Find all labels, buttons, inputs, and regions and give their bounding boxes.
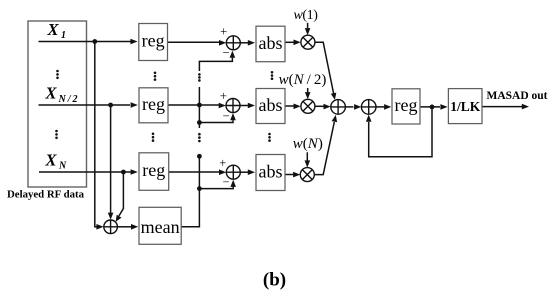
svg-text:reg: reg: [142, 94, 165, 114]
svg-text:−: −: [222, 109, 229, 123]
wire multiplier M1 to summer SG1 (diagonal): [315, 42, 334, 93]
ellipsis inside box upper: [56, 70, 59, 79]
svg-text:reg: reg: [142, 31, 165, 51]
wire mean distribution top segment and tap to row1 subtractor: [199, 58, 232, 71]
arrow feedback up into SG2: [366, 115, 372, 122]
svg-text:abs: abs: [259, 95, 283, 115]
junction mean line at row2 wire: [197, 103, 202, 108]
arrow into S3 from reg3: [219, 169, 226, 175]
summer SG1: [331, 100, 346, 115]
multiplier M2: [301, 99, 315, 113]
wire wN label to multiplier M3: [306, 152, 308, 160]
arrow into adder A1 diagonal: [116, 215, 122, 222]
ellipsis abs column lower: [268, 133, 271, 142]
svg-text:−: −: [222, 175, 229, 189]
ellipsis inside box lower: [55, 130, 58, 139]
wire abs3 to multiplier M3: [285, 174, 293, 176]
svg-text:Delayed RF data: Delayed RF data: [7, 189, 85, 201]
arrow into reg1: [130, 39, 137, 45]
subtractor S3: [226, 165, 240, 179]
wire reg2 to subtractor S2: [168, 104, 219, 106]
svg-text:mean: mean: [141, 217, 180, 237]
subtractor S2: [226, 99, 240, 113]
svg-text:abs: abs: [259, 33, 283, 53]
wire XN/2 row: [39, 104, 131, 106]
ellipsis mean line upper break: [198, 73, 201, 82]
junction reg4 output feedback: [430, 105, 435, 110]
wire mean tap to row3 subtractor: [199, 187, 233, 189]
svg-text:reg: reg: [395, 95, 418, 115]
arrow M1 diagonal into SG1: [331, 93, 337, 100]
ellipsis reg column upper: [154, 72, 157, 81]
wire subtractor S2 to abs2: [240, 105, 248, 107]
svg-text:w(N): w(N): [293, 136, 323, 152]
block abs2: [256, 89, 285, 124]
svg-text:(b): (b): [263, 270, 286, 291]
subtractor S1: [226, 36, 240, 50]
wire abs1 to multiplier M1: [285, 41, 294, 43]
wire XN/2 tap down to adder A1: [110, 105, 112, 213]
ellipsis reg column lower: [152, 133, 155, 142]
arrow wN down into M3: [305, 160, 311, 167]
wire summer SG1 to summer SG2: [345, 106, 353, 108]
wire reg4 to 1/LK: [420, 106, 440, 108]
wire subtractor S3 to abs3: [240, 171, 248, 173]
wire XN tap down to adder A1: [119, 172, 124, 216]
arrow SG1 to SG2: [354, 104, 361, 110]
multiplier M3: [300, 168, 314, 182]
arrow into M2 from abs2: [294, 104, 301, 110]
ellipsis mean line lower break: [198, 133, 201, 142]
arrow MASAD out: [522, 104, 529, 110]
junction mean tap row2: [197, 120, 202, 125]
block mean: [139, 207, 181, 244]
svg-text:−: −: [222, 45, 229, 59]
arrow into S2 from reg2: [219, 103, 226, 109]
svg-text:abs: abs: [259, 162, 283, 182]
block reg3: [139, 153, 169, 191]
svg-text:w(N / 2): w(N / 2): [279, 72, 327, 88]
arrow into reg2: [131, 102, 138, 108]
wire abs2 to multiplier M2: [285, 105, 294, 107]
arrow row1 minus into S1: [230, 51, 236, 58]
arrow row3 minus into S3: [230, 180, 236, 187]
junction XN tap: [121, 170, 126, 175]
wire X1 row: [39, 41, 132, 43]
wire multiplier M2 to summer SG1: [315, 105, 324, 107]
block reg2: [139, 88, 168, 123]
arrow wN2 down into M2: [305, 92, 311, 99]
wire subtractor S1 to abs1: [240, 42, 248, 44]
arrow w1 down into M1: [305, 28, 311, 35]
arrow M3 diagonal into SG1: [332, 115, 338, 122]
input data box: [28, 21, 87, 187]
arrow into M3 from abs3: [293, 172, 300, 178]
block 1/LK: [448, 89, 482, 124]
wire X1 tap down to adder A1: [95, 42, 98, 227]
wire mean tap to row2 subtractor: [199, 120, 233, 122]
wire multiplier M3 to summer SG1 (diagonal): [314, 122, 334, 175]
arrow into M1 from abs1: [294, 40, 301, 46]
wire 1/LK to MASAD out: [482, 106, 522, 108]
wire mean output up distribution (lower segment): [181, 156, 199, 227]
wire XN row: [39, 171, 131, 173]
wire w1 label to multiplier M1: [307, 23, 309, 29]
junction mean line segment end: [197, 154, 202, 159]
wire mean distribution middle segment: [198, 87, 200, 128]
adder A1 (mean input summer): [104, 220, 118, 234]
multiplier M1: [301, 35, 315, 49]
arrow into 1/LK: [440, 104, 447, 110]
arrow SG2 to reg4: [384, 104, 391, 110]
svg-text:+: +: [220, 89, 227, 103]
arrow into abs2: [248, 103, 255, 109]
block abs3: [256, 155, 285, 191]
arrow into abs3: [248, 169, 255, 175]
arrow into reg3: [131, 169, 138, 175]
wire feedback reg4 output to summer SG2: [369, 107, 432, 157]
block reg4 accumulator: [392, 89, 420, 124]
arrow into mean: [131, 224, 138, 230]
arrow into adder A1 left: [96, 224, 103, 230]
wire reg3 to subtractor S3: [169, 171, 220, 173]
wire reg1 to subtractor S1: [168, 41, 220, 43]
svg-text:MASAD out: MASAD out: [486, 90, 547, 102]
wire wN2 label to multiplier M2: [307, 88, 309, 92]
block reg1: [139, 24, 168, 61]
svg-text:+: +: [220, 25, 227, 39]
arrow into adder A1 top: [108, 213, 114, 220]
arrow M2 into SG1: [324, 104, 331, 110]
wire summer SG2 to reg4: [376, 106, 384, 108]
arrowheads: [96, 28, 529, 230]
arrow into abs1: [248, 40, 255, 46]
svg-text:w(1): w(1): [293, 8, 318, 23]
svg-text:+: +: [219, 156, 226, 170]
ellipsis abs column upper: [271, 71, 274, 80]
arrow row2 minus into S2: [230, 113, 236, 120]
junction XN/2 tap: [108, 103, 113, 108]
arrow into S1 from reg1: [219, 40, 226, 46]
summer SG2: [361, 100, 376, 115]
wire adder A1 to mean: [117, 226, 131, 228]
junction mean tap row3: [197, 186, 202, 191]
svg-text:1/LK: 1/LK: [450, 99, 481, 114]
block abs1: [256, 26, 285, 62]
junction X1 tap: [92, 39, 97, 44]
svg-text:reg: reg: [142, 160, 165, 180]
